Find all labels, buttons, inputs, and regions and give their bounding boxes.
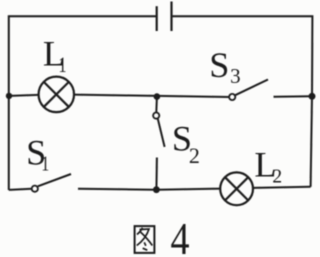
svg-text:4: 4	[171, 213, 190, 257]
svg-text:1: 1	[59, 52, 67, 77]
svg-text:3: 3	[230, 64, 241, 88]
lamp L1	[39, 77, 75, 113]
svg-text:2: 2	[189, 143, 200, 168]
wire lamp L2 to bottom-right corner	[253, 187, 311, 188]
switch S2	[153, 113, 165, 147]
switch S1	[32, 174, 71, 192]
label S3	[209, 45, 240, 88]
node middle top	[154, 93, 161, 100]
svg-text:1: 1	[41, 151, 49, 175]
wire middle branch: left node to lamp L1	[9, 95, 39, 96]
switch S3	[229, 80, 268, 101]
wire switch S3 to right node	[274, 95, 313, 98]
caption 图 4	[135, 213, 190, 257]
wire lamp L1 to switch S3	[74, 95, 229, 97]
wire bottom-left corner to switch S1	[9, 189, 32, 190]
label S2	[172, 119, 200, 168]
wire switch S1 to bottom node	[78, 188, 156, 191]
lamp L2	[220, 172, 253, 205]
capacitor left plate	[156, 6, 158, 31]
svg-text:S: S	[209, 45, 229, 85]
capacitor right plate	[170, 2, 172, 32]
wire bottom node to lamp L2	[156, 189, 220, 190]
node middle bottom	[153, 186, 160, 193]
wire top-left to capacitor left plate	[9, 16, 157, 190]
svg-text:2: 2	[272, 167, 282, 188]
wire middle vertical branch bottom	[155, 158, 158, 190]
label S1	[26, 132, 49, 175]
label L2	[254, 144, 282, 187]
label L1	[43, 33, 67, 77]
node left	[6, 93, 12, 99]
wire middle vertical branch top: node to switch S2	[155, 97, 158, 113]
node right	[309, 93, 316, 100]
wire capacitor right plate to top-right corner and down right side	[172, 16, 313, 187]
